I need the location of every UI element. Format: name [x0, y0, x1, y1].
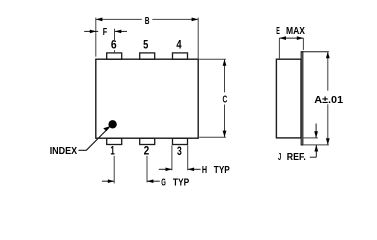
dimension B right arrowhead [192, 18, 199, 22]
pin 2 (bottom-middle lead) [140, 138, 155, 144]
dimension E extension line left [278, 38, 280, 59]
svg-text:TYP: TYP [214, 165, 230, 176]
pin 5 (top-middle lead) [140, 53, 155, 59]
dimension A top extension line [303, 51, 329, 53]
dimension B extension line right [197, 18, 199, 59]
index dot [108, 120, 116, 128]
svg-text:J: J [278, 152, 281, 163]
svg-text:MAX: MAX [286, 26, 305, 37]
dimension A line [327, 52, 329, 91]
front view: package body outline [96, 59, 198, 138]
dimension H right arrow (pointing left) [188, 168, 201, 170]
dimension A bottom extension line [303, 144, 329, 146]
dimension J body-bottom reference extension [303, 137, 317, 139]
dimension G right arrow (pointing left at pin2 centerline) [147, 180, 160, 182]
dimension E line [279, 37, 303, 39]
dimension C extension line bottom [199, 136, 226, 138]
svg-text:TYP: TYP [173, 178, 190, 189]
svg-text:B: B [145, 16, 150, 27]
dimension F extension line (pin 6 centerline) [114, 29, 116, 42]
dimension B left arrowhead [96, 18, 103, 22]
svg-text:6: 6 [111, 38, 117, 52]
dimension E extension line right [302, 38, 304, 50]
side view: package body outline [276, 59, 301, 138]
dimension C bottom arrowhead [223, 131, 227, 138]
svg-text:3: 3 [177, 144, 182, 158]
svg-text:G: G [161, 178, 166, 189]
svg-text:C: C [223, 94, 228, 105]
pin 6 (top-left lead) [107, 53, 122, 59]
svg-text:1: 1 [110, 144, 115, 158]
dimension H left arrow (pointing right) [159, 168, 172, 170]
dimension J bottom arrow (pointing up) [315, 145, 317, 157]
svg-text:INDEX: INDEX [50, 146, 78, 157]
pin 4 (top-right lead) [173, 53, 188, 59]
svg-text:A±.01: A±.01 [314, 95, 343, 106]
pin 1 (bottom-left lead) [107, 138, 122, 144]
dimension C line [224, 59, 226, 92]
svg-text:4: 4 [176, 38, 181, 52]
svg-text:5: 5 [143, 38, 148, 52]
side view: lead (edge-on vertical strip) [301, 52, 303, 145]
svg-text:REF.: REF. [287, 152, 306, 163]
svg-text:E: E [276, 26, 280, 37]
INDEX leader line [78, 128, 109, 151]
dimension C extension line top [199, 58, 226, 60]
dimension J leader [310, 156, 317, 158]
dimension E left arrowhead [279, 36, 286, 40]
dimension C top arrowhead [223, 59, 227, 66]
dimension F left arrow (outside, pointing right) [84, 30, 98, 32]
dimension J top arrow (pointing down) [315, 124, 317, 138]
dimension B line [96, 18, 142, 20]
svg-text:H: H [202, 165, 207, 176]
dimension G left arrow (pointing right at pin1 centerline) [102, 180, 114, 182]
svg-text:F: F [103, 27, 107, 38]
dimension F right arrow (outside, pointing left) [115, 30, 127, 32]
INDEX leader arrowhead [103, 126, 110, 131]
dimension H extension line (pin 3 right edge) [187, 145, 189, 170]
pin 3 (bottom-right lead) [173, 138, 188, 144]
dimension B extension line left [95, 18, 97, 57]
dimension G extension line (pin 2 centerline) [146, 156, 148, 183]
dimension A bottom arrowhead [326, 138, 330, 145]
dimension E right arrowhead [297, 36, 304, 40]
dimension G extension line (pin 1 centerline) [113, 156, 115, 184]
dimension H extension line (pin 3 left edge) [171, 145, 173, 170]
dimension A top arrowhead [326, 52, 330, 59]
svg-text:2: 2 [144, 144, 150, 158]
